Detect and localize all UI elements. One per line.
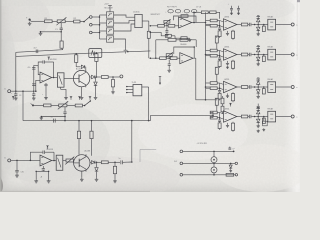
svg-text:LM311: LM311 [224,79,229,81]
capacitor C8 [230,8,233,10]
zener D7 [95,77,97,82]
svg-text:4n7: 4n7 [34,48,37,50]
resistor R63 vertical [263,87,265,89]
resistor R3 vertical [60,32,62,41]
feedback resistor R10 [181,15,188,18]
ground at op-amp U3 [227,31,229,32]
coupling cap C11 [217,25,219,27]
cap C11 below A3 [45,83,47,84]
capacitor C35 to ground [16,160,18,170]
resistor R34 to ground [219,122,221,123]
coupling cap C14 [217,117,219,119]
op-amp A2 [180,53,193,64]
node ch1 [254,24,256,26]
wire junction [108,76,120,78]
resistor R44 below op-amp [232,122,234,123]
ground mark ch2 [227,66,229,67]
relay K4 [268,111,276,122]
svg-text:LM311: LM311 [224,108,229,110]
wire ch4 to output [276,116,292,118]
trimmer P9 [192,10,197,13]
diode D10 [230,163,232,164]
wire B1 to Q1 base [64,78,73,80]
ground at op-amp U5 [227,93,229,94]
ground above D2a [256,46,260,48]
ground loop top wire [36,170,48,172]
lamp LP2 [213,163,215,167]
svg-text:RELAY: RELAY [268,16,275,19]
wire ch2 to output [276,54,292,56]
opto-gate U1a [107,12,114,18]
wire A3 output [52,77,58,79]
ground below D2b [257,63,259,64]
svg-text:MC4558: MC4558 [47,149,53,151]
left vertical join [15,52,17,91]
output terminal P4 [291,115,294,118]
junction [33,90,35,92]
wire gate1 to U2 [114,15,135,17]
diode D6 [90,76,91,78]
svg-text:C3: C3 [19,95,21,97]
ground below D4b [257,125,259,126]
resistor R27 [226,173,234,176]
opto/pot box B1 [57,73,64,87]
resistor R32 to ground [219,60,221,61]
resistor R23 vertical [78,121,80,132]
trimmer P7 [175,10,180,13]
inter-row divider R73 [216,98,218,100]
wire A2 output [193,57,196,59]
wire [67,104,75,106]
resistor R8 [158,24,165,27]
input terminal J2 [32,104,34,106]
connector box J3 [89,49,102,58]
wire gate2 to U2 [114,21,135,23]
svg-text:47n: 47n [28,67,31,69]
svg-text:CA3080: CA3080 [180,43,187,46]
svg-text:RELAY: RELAY [268,108,275,111]
ground below D3b [257,95,259,96]
wire [194,11,201,13]
input bus vertical [99,15,101,39]
capacitor C4c to ground [33,91,35,94]
resistor R64 vertical [263,117,265,119]
resistor R24a [210,111,217,114]
supply arrow 4 [89,97,91,100]
divider chain R82 [221,106,224,112]
op-amp U5 [224,81,237,92]
ground Q2 bottom [81,171,83,178]
switch S1 lever [84,17,90,22]
op-amp A4 [40,155,52,166]
bus vertical main [205,12,207,100]
diode D8 [90,161,91,163]
svg-text:MC4558: MC4558 [50,59,56,61]
resistor R43 below op-amp [232,92,234,93]
bus step [150,115,152,120]
IC U8 regulator [133,85,142,96]
potentiometer P5 [59,104,67,107]
capacitor C2 series in line A [35,50,37,54]
wire [65,20,73,22]
trimmer P6 [168,10,173,13]
resistor R11 [150,31,161,33]
coupling cap C13 [217,87,219,89]
wire to riser [123,161,132,163]
wire gate row 1 [100,14,107,16]
riser to lower stage cap [131,121,133,162]
wire ch1 feed [206,24,211,26]
capacitor C15 series [120,160,122,164]
diode D4b [257,117,259,120]
resistor R14 [210,11,216,14]
bus riser left [22,91,24,120]
feedback cap C10 over A3 [38,62,42,68]
supply arrow A4 [47,146,49,149]
resistor R18 vertical [95,52,97,55]
wire B2 to P4 [63,160,66,162]
pin stub 2 [127,89,133,91]
capacitor C9 [237,8,240,10]
resistor R22b [210,54,217,57]
svg-text:C35: C35 [21,172,24,174]
ground above D1a [256,16,260,18]
wire ch2 output [237,54,242,56]
capacitor C1 on pot wiper [60,23,62,28]
resistor R13 [201,11,208,14]
ground below D1b [257,33,259,34]
node ch4 [254,116,256,118]
resistor R51 [241,23,247,26]
wire gate row 4 [100,38,107,40]
resistor R17 vertical [75,54,77,55]
wire left drop [155,40,157,58]
ladder terminal A [180,150,183,153]
wire [31,20,44,22]
svg-text:D-8: D-8 [174,161,177,163]
inter-row divider R72 [216,66,218,69]
wire A2 route down [196,58,216,100]
wire [208,11,210,13]
wire gate row 2 [100,22,107,24]
supply arrow row4 [230,103,232,106]
supply arrow A3 [48,57,50,60]
line B [16,51,151,57]
svg-text:C7 C8: C7 C8 [196,6,201,8]
wire ch1 to output [276,24,292,26]
op-amp U6 [224,111,237,122]
ground [187,37,190,39]
wire ch3 into op-amp [220,83,224,84]
wire ch2 into op-amp [220,51,224,52]
output terminal P3 [291,86,294,89]
junction [168,57,170,59]
resistor R54 [241,115,247,118]
opto-gate U1b [107,20,114,26]
wire ch2 feed [206,54,211,56]
opto-gate U1d [107,36,114,42]
svg-text:TL431: TL431 [132,82,137,84]
wire A2 input [150,57,159,59]
potentiometer P4 [66,159,73,162]
svg-text:AC187: AC187 [76,67,82,70]
svg-text:AC188: AC188 [85,150,91,153]
wire R3 to line A [62,48,63,50]
line A [16,50,63,53]
diode D2b [257,55,259,58]
box B1 bottom ground [60,87,62,89]
probe arrow TP1 [159,77,161,85]
ladder wire C [183,174,235,176]
wire to driver [260,24,267,26]
ground Q1 bottom [81,87,83,96]
ladder right cap A [228,147,231,149]
svg-text:CD4011: CD4011 [133,12,139,14]
diode D4a [257,114,259,117]
feedback cap C13 over A4 [30,152,42,160]
wire to driver [260,86,267,88]
svg-text:RELAY: RELAY [268,78,275,81]
wire to driver [260,116,267,118]
svg-text:+: + [182,11,183,13]
wire to driver [260,54,267,56]
wire ch3 feed [206,86,211,88]
relay K3 [268,82,276,93]
capacitor C5 to ground [166,27,168,30]
power rail to gates [109,6,111,12]
ground marks row4 [257,130,259,131]
svg-text:SENSITIVITY: SENSITIVITY [151,14,162,16]
relay K1 [268,19,276,30]
op-amp U3 [224,19,237,30]
wire junction [108,161,120,163]
resistor R61 vertical [263,25,265,27]
node ch2 [254,54,256,56]
resistor R2 [74,20,80,23]
input terminal J1 with ground [29,19,31,21]
resistor R1 [45,20,53,23]
wire A4 output [52,160,56,162]
wire P4 to Q2 [72,161,74,163]
input terminal IN2 [90,24,93,27]
svg-text:+: + [165,11,166,13]
row4 extra box [263,121,268,126]
ground above D4a [256,108,260,110]
bus wire lower [23,120,151,122]
cap C14 below A4 [42,166,44,168]
resistor R21b [210,24,217,27]
wire gate4 down [114,39,126,46]
ladder wire A [183,150,234,152]
ladder terminal B [180,162,183,165]
resistor R24 vertical [91,121,93,132]
node ch3 [254,86,256,88]
switch S2 lever [85,101,90,105]
wire [52,20,57,22]
svg-text:LM311: LM311 [224,46,229,48]
series capacitor C12 [53,119,55,123]
diode D1a [257,22,259,25]
resistor R26 vertical [114,162,116,166]
wire gate row 3 [100,30,107,32]
row2 top resistor RB [180,38,188,41]
coupling cap C12 [217,55,219,57]
row2 top resistor RA [168,38,176,41]
svg-text:1u: 1u [51,117,53,119]
ground above D3a [256,78,260,80]
resistor R31 to ground [219,30,221,31]
ground loop right [48,171,50,179]
resistor R62 vertical [263,55,265,57]
zener D9 [96,162,98,167]
junction [16,160,18,162]
wire A1 input [150,25,158,27]
diode D3a [257,84,259,87]
resistor R42 below op-amp [232,60,234,61]
transistor Q1 [73,70,89,86]
input terminal IN3 [90,31,93,34]
wire [51,104,59,106]
wire to switch S2 [82,105,84,107]
wire U8 out [142,86,149,88]
faint corner line [140,150,156,163]
diode D3b [257,87,259,90]
wire to A3 noninv input [36,80,40,91]
resistor R21a [210,19,217,22]
feedback wire op-amp A1 [174,16,197,23]
wire A1 out up [193,12,195,22]
ladder wire B [183,162,235,164]
paper background [0,0,300,192]
potentiometer P1 [57,20,65,23]
resistor R7 vertical [148,21,150,31]
supply arrow pair 3 [70,97,72,100]
wire ch1 output [237,24,242,26]
meter terminal M1 [120,75,123,78]
resistor R52 [241,53,247,56]
wire gate3 to U2 [114,24,135,31]
resistor R9 [168,24,175,27]
wire ch4 output [237,116,242,118]
wire U2 output [142,20,149,22]
resistor R41 below op-amp [232,30,234,31]
wire ch3 to output [276,86,292,88]
transistor Q2 [74,155,90,171]
resistor R23b [210,87,217,90]
capacitor C4 [32,67,35,69]
ground at op-amp U6 [227,123,229,124]
input terminal D- [8,90,11,93]
wire ch3 output [237,86,242,88]
wire ch1 into op-amp [220,21,224,22]
resistor R16 [170,57,177,60]
capacitor C23 [248,86,249,88]
wire to A3 inv input [34,65,40,74]
feedback wire A2 [174,47,194,58]
output terminal P1 [291,23,294,26]
bus wire upper [151,114,214,116]
resistor R22a [210,49,217,52]
diode D5 [76,66,80,68]
capacitor C16 on P5 wiper [64,107,66,112]
capacitor C4b [32,83,35,85]
resistor R28 [44,104,51,107]
input terminal D+ [8,159,11,162]
resistor R29 [75,104,82,107]
resistor R15 [160,57,167,60]
pin stub 1 [127,86,133,88]
row4 caps above [257,105,260,107]
potentiometer P2 [166,23,168,25]
svg-text:+12 R50 R51: +12 R50 R51 [197,143,208,145]
lamp LP1 [213,151,215,156]
inter-row divider R71 [216,36,218,38]
resistor R19 [101,76,108,79]
op-amp A3 [40,72,52,83]
resistor R33 to ground [219,92,221,93]
capacitor C3 to ground [15,91,17,94]
wire ch4 into op-amp [220,113,224,114]
svg-text:RELAY: RELAY [268,46,275,49]
wire riser to op-amp A3 [33,67,35,91]
wire stub with ground [41,116,65,118]
cap C17 gate4 [125,46,127,51]
resistor R20 vertical [112,77,114,79]
capacitor C22 [248,54,249,56]
wire R18 down [95,70,97,77]
opto/pot box B2 [56,155,63,170]
relay K2 [268,49,276,60]
potentiometer P3 [168,56,170,58]
wire to switch [80,21,84,23]
diode D2a [257,52,259,55]
wire to Q1 collector [85,67,87,71]
wire top row2 [156,39,168,41]
divider chain R81 [221,98,224,104]
resistor R25 [101,161,108,164]
ground loop left [35,171,37,179]
svg-text:1u: 1u [119,158,121,160]
junction [166,25,168,27]
svg-text:LM311: LM311 [224,16,229,18]
trimmer P8 [184,10,189,13]
op-amp U4 [224,49,237,60]
svg-text:+12V: +12V [104,4,109,6]
op-amp A1 [179,17,192,28]
resistor R24b [210,116,217,119]
ladder terminal C right [235,174,237,176]
pin stub 3 [127,92,133,94]
resistor R23a [210,82,217,85]
ground at op-amp U4 [227,61,229,62]
svg-text:P6 P7 P8 P9: P6 P7 P8 P9 [167,7,177,9]
diode D1b [257,25,259,28]
IC U2 [135,14,142,27]
wire stub with ground [41,31,62,33]
ladder terminal C [180,174,183,177]
input terminal IN1 [90,16,93,19]
resistor R12 [171,35,175,37]
supply arrows row [12,96,14,99]
opto-gate U1c [107,28,114,34]
capacitor C6 to ground [168,60,170,64]
resistor R53 [241,86,247,89]
output terminal P2 [291,53,294,56]
wire A1 output [192,22,206,24]
capacitor C24 [248,116,249,118]
wire to ch1 [216,12,220,18]
wire U8 drop [148,87,150,121]
